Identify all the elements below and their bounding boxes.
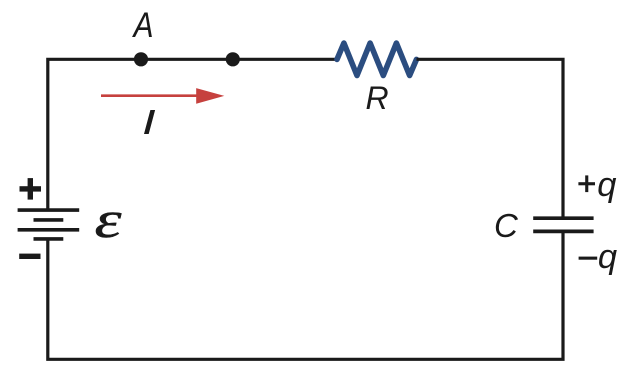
battery + polarity sign bbox=[20, 178, 42, 200]
svg-text:ε: ε bbox=[95, 192, 123, 249]
battery plate 2 (short) bbox=[34, 218, 64, 222]
svg-text:A: A bbox=[132, 5, 154, 45]
svg-text:R: R bbox=[366, 80, 389, 116]
svg-text:C: C bbox=[494, 207, 519, 244]
capacitor C bottom plate bbox=[533, 230, 593, 234]
battery plate 1 (long, + terminal) bbox=[18, 208, 80, 212]
resistor R (zigzag) bbox=[337, 43, 417, 75]
battery plate 3 (long) bbox=[18, 228, 80, 232]
battery plate 4 (short, - terminal) bbox=[34, 237, 64, 241]
capacitor C top plate bbox=[533, 216, 593, 220]
wire: bottom loop from capacitor bottom plate around to battery bottom plate bbox=[48, 232, 563, 360]
label +q (top plate charge) bbox=[578, 166, 616, 204]
svg-text:q: q bbox=[598, 238, 617, 276]
battery - polarity sign bbox=[19, 254, 40, 259]
wire: top-left segment from battery up and across to resistor bbox=[48, 59, 337, 210]
wire: top-right segment from resistor to capacitor top plate bbox=[417, 59, 564, 218]
svg-text:q: q bbox=[597, 166, 616, 204]
switch contact dot (right) bbox=[226, 52, 240, 66]
label I (current) bbox=[144, 110, 155, 134]
current arrow I (red) bbox=[101, 88, 224, 104]
label −q (bottom plate charge) bbox=[579, 238, 617, 276]
switch contact dot (node A, left) bbox=[134, 52, 148, 66]
